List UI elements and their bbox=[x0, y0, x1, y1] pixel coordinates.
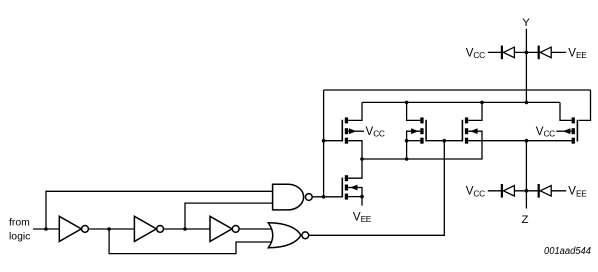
svg-text:logic: logic bbox=[9, 231, 30, 242]
svg-text:from: from bbox=[9, 217, 30, 228]
svg-text:Y: Y bbox=[522, 17, 530, 29]
svg-text:001aad544: 001aad544 bbox=[544, 246, 591, 257]
svg-text:Z: Z bbox=[522, 214, 529, 226]
